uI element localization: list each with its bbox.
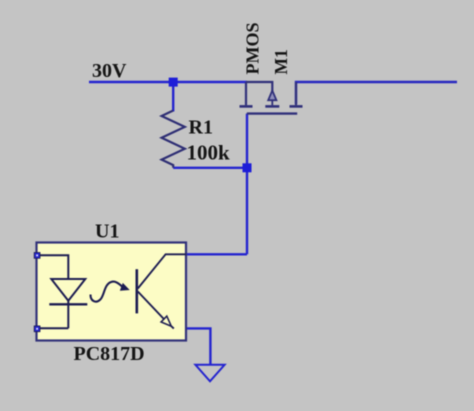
led cathode bar xyxy=(49,303,87,305)
wire 30V rail (left segment) xyxy=(89,81,247,83)
resistor R1 zigzag body xyxy=(162,111,185,168)
opto phototransistor section xyxy=(137,254,186,328)
svg-text:PC817D: PC817D xyxy=(74,343,145,365)
node junction N1 (30V rail / R1) xyxy=(169,78,178,87)
wire gate vertical from gate bar to opto collector level xyxy=(246,114,248,255)
transistor M1 PMOS symbol xyxy=(240,82,303,114)
phototransistor base bar xyxy=(136,269,139,313)
led cathode shaft xyxy=(67,301,69,329)
pmos drain contact bar xyxy=(290,105,303,108)
led triangle xyxy=(51,279,85,301)
pmos source stub xyxy=(245,82,247,105)
opto pin square bottom-left xyxy=(34,326,40,332)
svg-text:M1: M1 xyxy=(271,49,291,74)
led anode lead xyxy=(40,255,68,279)
svg-text:30V: 30V xyxy=(92,60,127,82)
optocoupler U1 body box xyxy=(37,243,187,341)
phototransistor emitter tail to pin xyxy=(171,326,174,328)
pmos gate bar xyxy=(247,112,297,114)
squiggle arrowhead xyxy=(120,283,130,291)
wire resistor bottom to gate node xyxy=(173,167,247,169)
opto LED section xyxy=(40,255,87,328)
phototransistor emitter line xyxy=(138,292,164,320)
svg-text:100k: 100k xyxy=(187,141,231,165)
opto pin square top-left xyxy=(34,253,40,259)
phototransistor collector line xyxy=(138,254,186,288)
wire opto collector to gate vertical xyxy=(186,253,247,255)
wire drain rail (right segment) xyxy=(296,82,457,104)
pmos bulk contact bar xyxy=(265,105,279,108)
pmos drain stub xyxy=(295,82,297,105)
wire R1 top lead from node xyxy=(172,82,174,112)
opto photon squiggle arrow xyxy=(90,282,129,302)
pmos bulk shaft xyxy=(271,100,273,105)
ground symbol xyxy=(195,365,224,382)
svg-text:R1: R1 xyxy=(189,117,213,139)
wire opto emitter to ground xyxy=(174,328,211,364)
node junction N2 (R1 bottom / gate wire) xyxy=(243,163,252,172)
pmos source contact bar xyxy=(240,105,253,108)
pmos source-bulk link wire xyxy=(246,82,272,91)
pmos bulk arrow head xyxy=(268,91,276,101)
svg-text:PMOS: PMOS xyxy=(243,23,263,75)
led cathode lead xyxy=(40,327,68,329)
phototransistor emitter arrowhead (hollow) xyxy=(161,316,171,326)
svg-text:U1: U1 xyxy=(95,221,119,243)
